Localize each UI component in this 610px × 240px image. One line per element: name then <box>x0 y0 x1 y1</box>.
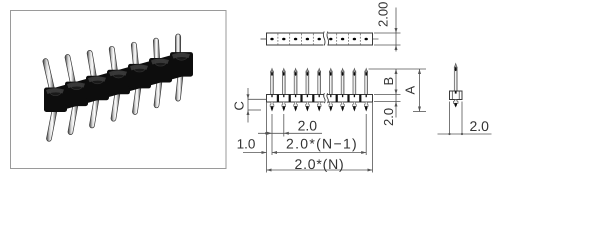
svg-text:2.0*(N−1): 2.0*(N−1) <box>286 136 358 152</box>
svg-text:2.00: 2.00 <box>376 2 391 27</box>
svg-text:1.0: 1.0 <box>237 137 256 152</box>
svg-text:A: A <box>403 86 418 95</box>
svg-text:B: B <box>381 77 396 86</box>
svg-text:2.0: 2.0 <box>298 118 318 134</box>
svg-text:C: C <box>232 101 247 110</box>
svg-text:2.0*(N): 2.0*(N) <box>295 156 345 172</box>
svg-text:2.0: 2.0 <box>381 108 396 126</box>
svg-text:2.0: 2.0 <box>470 118 490 134</box>
